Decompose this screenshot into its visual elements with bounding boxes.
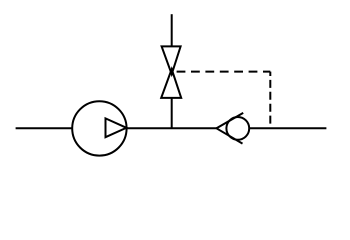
valve V1 lower triangle — [161, 69, 181, 98]
pump P1 flow triangle — [106, 118, 127, 137]
check valve CV1 seat lower tangent line — [217, 128, 243, 143]
wire: valve V1 lower stem — [171, 98, 173, 128]
wire: right outlet pipe — [249, 127, 326, 129]
check valve CV1 ball — [226, 117, 249, 140]
wire: valve V1 upper stem — [171, 14, 173, 46]
pump P1 body circle — [72, 101, 126, 155]
wire: dashed pilot line horizontal run from valve center — [177, 71, 271, 73]
wire: pipe pump to check valve — [127, 127, 217, 129]
wire: dashed pilot line vertical drop to pipe — [269, 72, 271, 129]
valve V1 upper triangle — [162, 46, 181, 74]
check valve CV1 seat upper tangent line — [217, 113, 244, 128]
wire: left inlet pipe — [16, 127, 72, 129]
